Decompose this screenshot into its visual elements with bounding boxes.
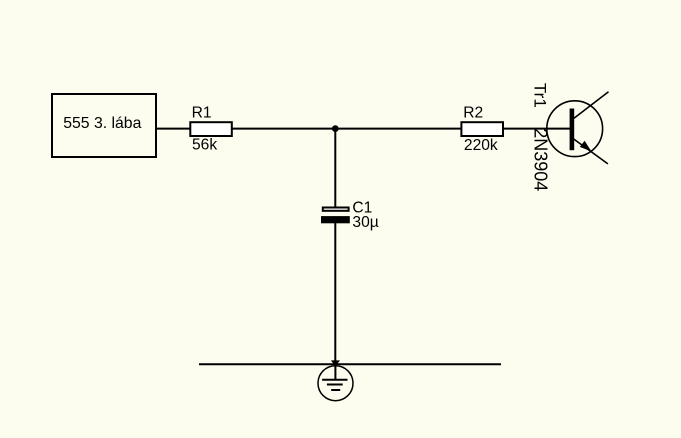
capacitor C1 bottom plate (321, 216, 350, 223)
svg-text:555 3. lába: 555 3. lába (63, 115, 141, 132)
wire R1 to R2 (232, 128, 461, 130)
emitter line (573, 139, 608, 164)
ground rail wire (199, 363, 501, 365)
svg-text:R2: R2 (463, 105, 483, 122)
wire R2 to transistor base (503, 128, 571, 130)
transistor base bar (570, 109, 575, 151)
wire C1 to ground (334, 223, 336, 364)
transistor Tr1 circle (547, 101, 603, 157)
ground bar mid (327, 384, 343, 386)
collector line (573, 92, 609, 119)
wire junction to C1 (334, 129, 336, 207)
svg-text:220k: 220k (464, 137, 498, 154)
node junction dot (332, 125, 339, 132)
resistor R2 (461, 122, 503, 136)
capacitor C1 top plate (323, 208, 349, 211)
svg-text:30µ: 30µ (352, 214, 378, 231)
svg-text:Tr1: Tr1 (531, 83, 550, 108)
ground bar long (322, 379, 347, 381)
wire box to R1 (156, 128, 190, 130)
ground stem (334, 366, 336, 380)
svg-text:2N3904: 2N3904 (531, 128, 551, 191)
ground junction triangle (331, 360, 340, 366)
ground earth symbol circle (318, 366, 353, 401)
ground bar short (331, 389, 340, 391)
resistor R1 (190, 122, 232, 136)
block 555 output box (52, 94, 156, 157)
emitter arrow (580, 141, 592, 152)
svg-text:56k: 56k (192, 137, 217, 154)
svg-text:R1: R1 (192, 105, 212, 122)
